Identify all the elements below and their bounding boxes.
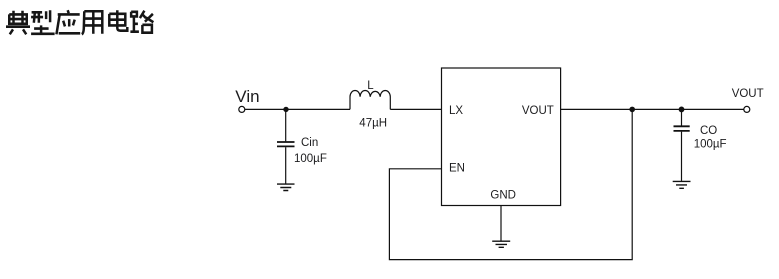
svg-text:CO: CO	[700, 125, 717, 137]
title 典型应用电路	[6, 10, 153, 34]
junction node at Vin/Cin	[283, 107, 288, 112]
svg-text:L: L	[367, 80, 374, 92]
capacitor Cin lower wire	[285, 147, 287, 183]
ground (CO)	[673, 181, 691, 188]
用	[82, 11, 103, 34]
型	[31, 10, 54, 34]
wire EN feedback loop	[389, 109, 632, 259]
电	[109, 10, 127, 30]
capacitor C-in branch wire upper	[285, 109, 287, 141]
inductor L	[350, 90, 390, 109]
svg-text:EN: EN	[449, 163, 465, 175]
capacitor CO branch wire upper	[681, 109, 683, 125]
wire GND pin down	[500, 206, 502, 241]
wire Vin to inductor	[245, 108, 350, 110]
capacitor CO plates	[674, 126, 690, 131]
junction node at CO	[679, 107, 685, 113]
应	[56, 10, 80, 34]
ground (Cin)	[277, 184, 295, 190]
capacitor Cin plates	[277, 142, 295, 146]
terminal VOUT	[744, 106, 750, 112]
svg-text:47µH: 47µH	[359, 117, 387, 129]
svg-text:Cin: Cin	[301, 137, 318, 149]
svg-text:VOUT: VOUT	[522, 105, 554, 117]
capacitor CO lower wire	[681, 132, 683, 181]
svg-text:VOUT: VOUT	[732, 88, 764, 100]
terminal Vin	[239, 106, 245, 112]
svg-text:LX: LX	[449, 105, 463, 117]
svg-text:100µF: 100µF	[694, 139, 727, 151]
junction node at feedback	[629, 107, 635, 113]
路	[130, 11, 153, 33]
svg-text:GND: GND	[490, 189, 516, 201]
svg-text:100µF: 100µF	[294, 153, 327, 165]
IC box U1	[442, 68, 561, 206]
wire inductor to LX	[390, 108, 441, 110]
svg-text:Vin: Vin	[235, 87, 259, 106]
典	[6, 11, 30, 35]
ground (GND pin)	[492, 241, 510, 247]
wire VOUT pin to terminal	[561, 108, 744, 110]
